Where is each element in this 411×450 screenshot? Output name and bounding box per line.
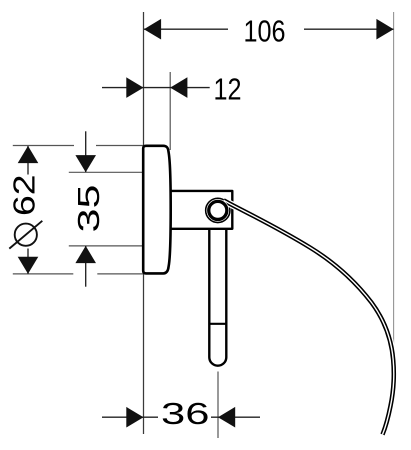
arrow 12 left (points right, tip on wall line) <box>126 77 143 98</box>
arrow 106 right <box>376 19 393 40</box>
dimension line 36 <box>102 416 260 418</box>
dimension line 12 <box>102 87 210 89</box>
arrow 35 bottom (points up, tip on lower ext line) <box>75 246 96 263</box>
arrow 36 right (points left, tip on pendant line) <box>218 407 235 428</box>
pendant joint line <box>209 323 226 325</box>
svg-text:106: 106 <box>244 14 286 49</box>
pivot coil circle <box>206 198 230 222</box>
text mask 106 <box>228 19 304 40</box>
arrow 12 right (points left, tip on front line) <box>170 77 187 98</box>
svg-text:12: 12 <box>214 72 242 107</box>
extension line right (106) <box>393 12 395 352</box>
extension line front of plate (12) <box>169 72 171 150</box>
wall line <box>143 12 145 434</box>
dimension line dia62 <box>27 146 29 274</box>
arrow 36 left (points right, tip on wall line) <box>126 407 143 428</box>
arm (bracket) <box>167 191 232 229</box>
extension line 35 top <box>69 171 147 173</box>
extension line dia62 top <box>13 145 74 147</box>
arrow 106 left <box>144 19 161 40</box>
svg-text:36: 36 <box>161 396 210 431</box>
arrow dia62 bottom (points down) <box>18 257 39 274</box>
dimension line 35 upper leader <box>85 131 87 172</box>
extension line pendant center (36) <box>217 372 219 439</box>
extension line dia62 bottom <box>13 273 74 275</box>
svg-text:35: 35 <box>71 185 106 233</box>
text mask dia62 <box>13 175 42 249</box>
dimension line 35 lower leader <box>85 246 87 287</box>
arrow 35 top (points down, tip on upper ext line) <box>75 155 96 172</box>
extension line 35 bottom <box>69 245 147 247</box>
escutcheon plate (side view) <box>143 146 171 274</box>
pivot ring <box>206 199 229 222</box>
text mask 36 <box>158 406 211 427</box>
svg-text:62: 62 <box>6 174 41 216</box>
pendant (roll holder arm) <box>209 229 226 366</box>
arrow dia62 top (points up) <box>18 146 39 163</box>
dimension line 106 <box>144 28 394 30</box>
diameter symbol of label 62 <box>9 221 42 249</box>
